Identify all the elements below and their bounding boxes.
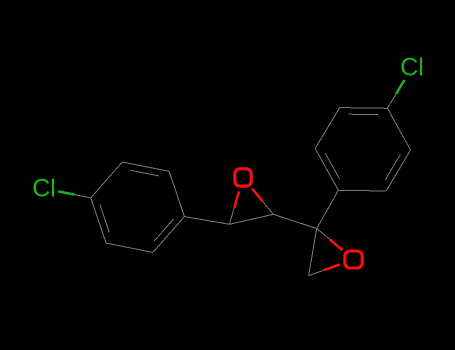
bond ring2-C2p: [317, 190, 339, 228]
benzene ring 1 bond C2-C3: [106, 243, 153, 252]
benzene ring 2 bond C2-C3: [315, 108, 340, 149]
benzene ring 1 bond C6-C1: [169, 171, 184, 216]
svg-text:Cl: Cl: [400, 54, 424, 82]
benzene ring 1 bond C3-C4: [91, 198, 110, 243]
benzene ring 1 bond C5-C6: [122, 162, 169, 176]
benzene ring 2 bond C3-C4: [340, 108, 388, 115]
benzene ring 1 bond C1-C2: [153, 217, 185, 253]
bond Cl1-ring1: [58, 191, 91, 198]
bond O2-C2p: [317, 229, 343, 251]
benzene ring 1 bond C4-C5: [91, 162, 123, 198]
bond C2-C3: [229, 214, 273, 224]
bond C2p-C3p: [309, 229, 317, 276]
atom label O1: [235, 169, 251, 186]
bond Cl2-ring2: [387, 80, 404, 108]
atom label O2: [345, 251, 362, 268]
benzene ring 2 bond C6-C1: [338, 189, 386, 192]
svg-text:Cl: Cl: [32, 175, 56, 203]
benzene ring 2 bond C1-C2: [315, 149, 340, 191]
bond O1-C3: [252, 189, 273, 215]
bond C3-C2p: [273, 214, 316, 228]
bond ring1-C2: [184, 217, 229, 225]
bond O2-C3p: [309, 264, 340, 275]
bond O1-C2: [229, 191, 239, 224]
benzene ring 2 bond C5-C6: [385, 150, 410, 191]
benzene ring 2 bond C4-C5: [387, 108, 410, 150]
